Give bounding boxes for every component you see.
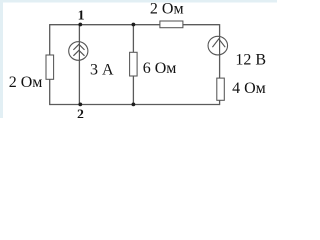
svg-text:1: 1 [78,7,85,22]
svg-text:3 А: 3 А [90,62,114,79]
svg-text:2 Ом: 2 Ом [150,1,184,18]
svg-text:4 Ом: 4 Ом [232,80,266,97]
svg-text:2 Ом: 2 Ом [9,74,43,91]
svg-text:2: 2 [77,106,84,118]
svg-text:12 В: 12 В [235,51,266,68]
svg-text:6 Ом: 6 Ом [143,60,177,77]
